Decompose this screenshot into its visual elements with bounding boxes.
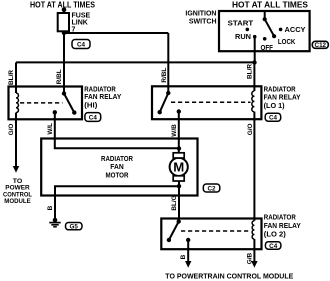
label IGNITION SWITCH bbox=[185, 11, 216, 26]
label BL/R (right) bbox=[247, 64, 254, 79]
switch HI relay bbox=[53, 91, 77, 115]
svg-text:FAN: FAN bbox=[110, 164, 124, 171]
wire bus from fuse to LO1 relay (horizontal) bbox=[64, 32, 168, 34]
label B (ground wire) bbox=[47, 205, 54, 210]
wire HI coil to G/O bbox=[15, 113, 17, 120]
svg-text:C4: C4 bbox=[77, 41, 86, 48]
wire G/O from HI coil to arrow bbox=[15, 120, 17, 167]
wire bus ignition to HI relay coil (horizontal) bbox=[16, 61, 255, 63]
svg-text:MOTOR: MOTOR bbox=[106, 173, 129, 180]
svg-text:R/BL: R/BL bbox=[56, 69, 63, 84]
switch LO2 relay bbox=[167, 219, 191, 242]
label RUN bbox=[235, 34, 251, 41]
label RADIATOR FAN MOTOR bbox=[101, 156, 133, 179]
svg-text:C4: C4 bbox=[269, 243, 278, 250]
dashed link HI relay bbox=[20, 102, 63, 104]
svg-text:LOCK: LOCK bbox=[278, 39, 296, 46]
label OFF bbox=[261, 45, 274, 52]
junction dot bus/ignition bbox=[252, 60, 256, 64]
label TO POWERTRAIN CONTROL MODULE bbox=[165, 271, 293, 280]
svg-text:W/B: W/B bbox=[171, 124, 178, 137]
svg-text:HOT AT ALL TIMES: HOT AT ALL TIMES bbox=[232, 1, 309, 10]
label W/L bbox=[47, 123, 54, 135]
svg-text:SWITCH: SWITCH bbox=[189, 19, 217, 26]
svg-text:FAN RELAY: FAN RELAY bbox=[264, 95, 301, 102]
svg-text:(LO 1): (LO 1) bbox=[264, 103, 285, 110]
junction dot motor feed bbox=[177, 146, 181, 150]
svg-text:B: B bbox=[47, 205, 54, 210]
label HOT AT ALL TIMES (left) bbox=[30, 0, 96, 9]
connector tag C12 bbox=[312, 41, 328, 49]
label RADIATOR FAN RELAY (HI) bbox=[84, 86, 121, 109]
svg-text:RADIATOR: RADIATOR bbox=[101, 156, 133, 163]
svg-text:TO POWERTRAIN CONTROL MODULE: TO POWERTRAIN CONTROL MODULE bbox=[165, 271, 293, 280]
wire BL/R to HI relay coil bbox=[15, 62, 17, 93]
wire BL/R to LO1 relay coil bbox=[253, 62, 255, 91]
svg-text:FUSE: FUSE bbox=[72, 12, 91, 19]
relay box LO2 bbox=[161, 219, 261, 250]
ignition switch arm bbox=[263, 17, 277, 38]
label HOT AT ALL TIMES (right) bbox=[232, 1, 309, 10]
label RADIATOR FAN RELAY (LO 2) bbox=[264, 215, 301, 239]
arrowhead to power control module bbox=[13, 166, 19, 173]
wire R/BL drop to LO1 relay switch bbox=[167, 33, 169, 93]
svg-text:(LO 2): (LO 2) bbox=[264, 232, 286, 239]
wire R/BL fuse to HI relay switch bbox=[63, 31, 65, 93]
fuse link 7 bbox=[58, 13, 69, 31]
contact OFF bbox=[263, 37, 267, 41]
relay box LO1 bbox=[152, 86, 261, 119]
svg-text:C4: C4 bbox=[89, 115, 98, 122]
label G/O (right) bbox=[247, 124, 254, 136]
label R/BL (left) bbox=[56, 69, 63, 84]
svg-text:W/L: W/L bbox=[47, 123, 54, 135]
dashed link LO1 relay bbox=[171, 101, 251, 103]
svg-text:RUN: RUN bbox=[235, 34, 251, 41]
svg-text:START: START bbox=[228, 21, 254, 28]
svg-text:C12: C12 bbox=[315, 42, 327, 49]
contact RUN bbox=[253, 35, 257, 39]
svg-text:C2: C2 bbox=[207, 186, 216, 193]
motor box bbox=[41, 139, 197, 196]
label LOCK bbox=[278, 39, 296, 46]
svg-text:G/O: G/O bbox=[8, 124, 15, 136]
wire G/O LO1 coil to LO2 coil bbox=[253, 112, 255, 221]
contact START bbox=[246, 28, 250, 32]
connector tag C4 (LO1 relay) bbox=[265, 113, 281, 122]
svg-text:FAN RELAY: FAN RELAY bbox=[264, 223, 301, 230]
label W/B bbox=[171, 124, 178, 137]
ground G5 bbox=[49, 218, 60, 227]
wire BL/G motor to LO2 relay bbox=[178, 186, 180, 221]
coil LO2 relay bbox=[252, 221, 254, 239]
label B (LO2) bbox=[180, 254, 187, 259]
svg-text:RADIATOR: RADIATOR bbox=[264, 87, 296, 94]
svg-text:BL/G: BL/G bbox=[171, 195, 178, 210]
svg-text:B: B bbox=[180, 254, 187, 259]
svg-text:G/B: G/B bbox=[246, 252, 253, 264]
junction dot motor ground bbox=[177, 184, 181, 188]
wire fuse stem bbox=[63, 10, 65, 13]
coil HI relay bbox=[16, 93, 18, 113]
svg-text:IGNITION: IGNITION bbox=[185, 11, 216, 18]
svg-text:C4: C4 bbox=[269, 115, 278, 122]
label TO POWER CONTROL MODULE bbox=[3, 178, 32, 205]
svg-text:M: M bbox=[173, 160, 184, 175]
power dot (fused supply) bbox=[62, 8, 67, 13]
motor M1 bbox=[170, 153, 188, 181]
svg-text:(HI): (HI) bbox=[84, 103, 97, 110]
connector tag C2 bbox=[203, 184, 220, 193]
label BL/R (left) bbox=[8, 70, 15, 85]
label RADIATOR FAN RELAY (LO 1) bbox=[264, 87, 301, 110]
label FUSE LINK 7 bbox=[72, 12, 91, 33]
svg-text:BL/R: BL/R bbox=[247, 64, 254, 79]
label R/BL (middle) bbox=[161, 68, 168, 83]
wire motor to ground junction bbox=[178, 181, 180, 186]
svg-text:LINK: LINK bbox=[72, 19, 88, 26]
relay box HI bbox=[9, 87, 83, 120]
svg-text:R/BL: R/BL bbox=[161, 68, 168, 83]
label G/O (left) bbox=[8, 124, 15, 136]
ignition switch box bbox=[219, 11, 310, 51]
connector tag G5 bbox=[66, 223, 83, 231]
label ACCY bbox=[285, 27, 306, 34]
svg-text:RADIATOR: RADIATOR bbox=[84, 86, 116, 93]
arrowhead B to PCM bbox=[185, 261, 191, 268]
label BL/G bbox=[171, 195, 178, 210]
wire W/L HI relay to motor bbox=[55, 112, 179, 148]
svg-text:RADIATOR: RADIATOR bbox=[264, 215, 296, 222]
svg-text:OFF: OFF bbox=[261, 45, 274, 52]
svg-text:G5: G5 bbox=[69, 224, 78, 231]
junction dot fuse bottom bbox=[62, 31, 66, 35]
svg-text:MODULE: MODULE bbox=[4, 198, 31, 205]
contact ACCY bbox=[279, 28, 283, 32]
coil LO1 relay bbox=[252, 91, 255, 112]
wire BL/R ignition RUN drop bbox=[254, 37, 256, 63]
ignition switch pivot stem bbox=[264, 11, 266, 19]
wire G/B LO2 coil to PCM bbox=[253, 239, 255, 261]
connector tag C4 (fuse) bbox=[72, 40, 90, 49]
svg-text:FAN RELAY: FAN RELAY bbox=[84, 94, 121, 101]
svg-text:G/O: G/O bbox=[247, 124, 254, 136]
wire B motor to ground bbox=[55, 186, 179, 218]
switch LO1 relay bbox=[158, 91, 182, 115]
wire B LO2 relay to PCM bbox=[187, 240, 189, 262]
svg-text:BL/R: BL/R bbox=[8, 70, 15, 85]
label G/B bbox=[246, 252, 253, 264]
dashed link LO2 relay bbox=[181, 230, 251, 232]
wire W/B LO1 relay to motor bbox=[178, 112, 180, 153]
connector tag C4 (HI relay) bbox=[85, 113, 101, 122]
label START bbox=[228, 21, 254, 28]
connector tag C4 (LO2 relay) bbox=[265, 242, 281, 250]
svg-text:ACCY: ACCY bbox=[285, 27, 306, 34]
arrowhead G/B to PCM bbox=[251, 261, 257, 268]
